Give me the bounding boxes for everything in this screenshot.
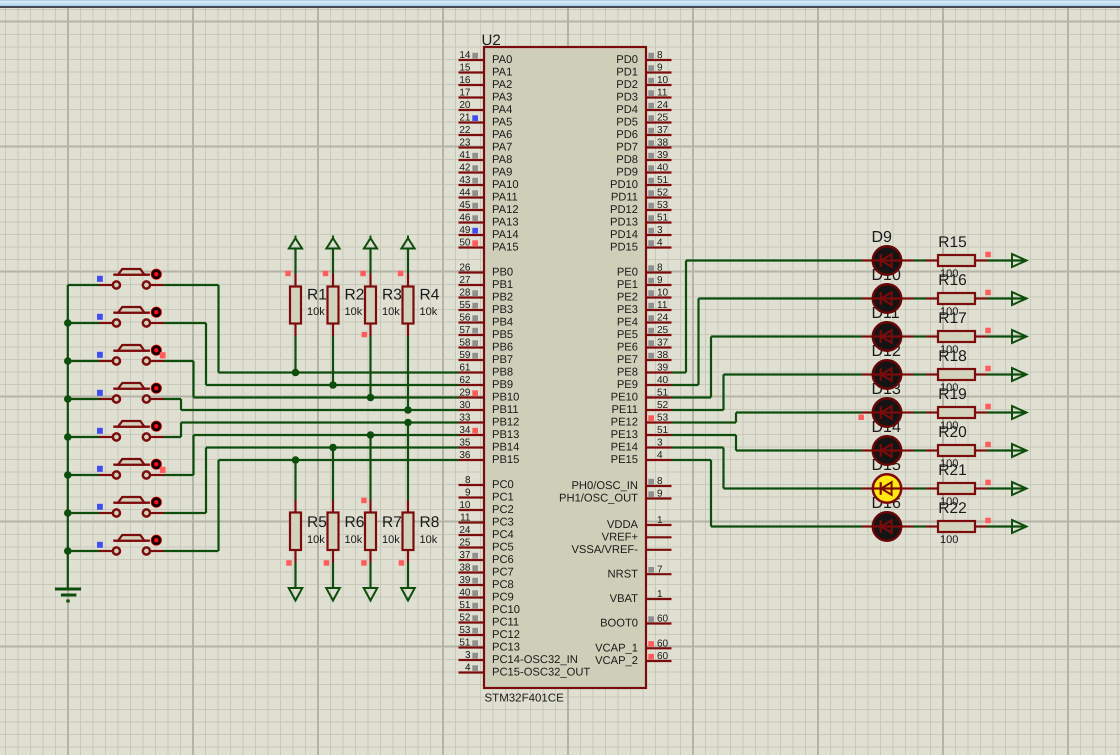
svg-text:PC13: PC13 — [492, 642, 520, 654]
svg-text:PD14: PD14 — [610, 229, 638, 241]
svg-text:BOOT0: BOOT0 — [600, 618, 638, 630]
svg-text:R3: R3 — [382, 287, 402, 304]
svg-text:8: 8 — [465, 475, 471, 486]
svg-text:33: 33 — [459, 413, 471, 424]
svg-text:40: 40 — [657, 163, 669, 174]
svg-text:PD3: PD3 — [616, 92, 638, 104]
svg-text:41: 41 — [459, 150, 471, 161]
svg-text:R17: R17 — [938, 310, 966, 327]
svg-text:58: 58 — [459, 338, 471, 349]
svg-text:24: 24 — [459, 525, 471, 536]
svg-text:9: 9 — [657, 275, 663, 286]
svg-text:10k: 10k — [382, 306, 400, 318]
svg-text:100: 100 — [940, 534, 958, 546]
svg-text:39: 39 — [459, 575, 471, 586]
svg-text:11: 11 — [460, 513, 471, 524]
svg-text:37: 37 — [657, 338, 669, 349]
svg-text:8: 8 — [657, 263, 663, 274]
svg-text:51: 51 — [657, 213, 669, 224]
svg-text:1: 1 — [657, 589, 663, 600]
svg-text:PE5: PE5 — [617, 329, 638, 341]
svg-text:15: 15 — [459, 63, 471, 74]
svg-text:60: 60 — [657, 639, 669, 650]
svg-text:PC8: PC8 — [492, 579, 514, 591]
svg-text:PC12: PC12 — [492, 629, 520, 641]
svg-text:PD15: PD15 — [610, 242, 638, 254]
svg-text:PE10: PE10 — [611, 392, 638, 404]
svg-text:PB10: PB10 — [492, 392, 519, 404]
svg-text:PA2: PA2 — [492, 79, 512, 91]
svg-text:VDDA: VDDA — [607, 519, 639, 531]
svg-text:PA1: PA1 — [492, 67, 512, 79]
svg-text:35: 35 — [459, 438, 471, 449]
svg-text:PB8: PB8 — [492, 367, 513, 379]
svg-text:R22: R22 — [938, 500, 966, 517]
svg-text:9: 9 — [657, 63, 663, 74]
svg-text:VREF+: VREF+ — [602, 532, 638, 544]
svg-text:25: 25 — [657, 325, 669, 336]
svg-text:62: 62 — [459, 375, 471, 386]
svg-text:D9: D9 — [872, 229, 893, 246]
svg-text:PD10: PD10 — [610, 179, 638, 191]
svg-text:40: 40 — [459, 588, 471, 599]
svg-text:10: 10 — [657, 288, 669, 299]
svg-text:42: 42 — [459, 163, 471, 174]
svg-text:51: 51 — [657, 388, 669, 399]
svg-text:PB3: PB3 — [492, 304, 513, 316]
svg-text:PE12: PE12 — [611, 417, 638, 429]
svg-text:PD2: PD2 — [616, 79, 638, 91]
svg-text:53: 53 — [657, 413, 669, 424]
svg-text:PB15: PB15 — [492, 454, 519, 466]
svg-text:PC2: PC2 — [492, 504, 514, 516]
svg-text:PD9: PD9 — [616, 167, 638, 179]
svg-text:60: 60 — [657, 651, 669, 662]
svg-text:3: 3 — [657, 438, 663, 449]
svg-text:8: 8 — [657, 50, 663, 61]
svg-text:R5: R5 — [307, 514, 327, 531]
svg-text:36: 36 — [459, 450, 471, 461]
svg-text:55: 55 — [459, 300, 471, 311]
svg-text:56: 56 — [459, 313, 471, 324]
svg-text:R1: R1 — [307, 287, 327, 304]
svg-text:10k: 10k — [420, 306, 438, 318]
svg-text:R16: R16 — [938, 272, 966, 289]
svg-text:59: 59 — [459, 350, 471, 361]
svg-text:10k: 10k — [307, 534, 325, 546]
svg-text:51: 51 — [459, 600, 471, 611]
svg-text:20: 20 — [459, 100, 471, 111]
svg-text:R18: R18 — [938, 348, 966, 365]
svg-text:4: 4 — [657, 238, 663, 249]
svg-text:17: 17 — [459, 88, 471, 99]
svg-text:R6: R6 — [345, 514, 365, 531]
svg-text:PA3: PA3 — [492, 92, 512, 104]
svg-text:37: 37 — [459, 550, 471, 561]
svg-text:PC0: PC0 — [492, 479, 514, 491]
svg-text:9: 9 — [465, 488, 471, 499]
svg-text:PB6: PB6 — [492, 342, 513, 354]
svg-text:PC7: PC7 — [492, 567, 514, 579]
svg-text:PA9: PA9 — [492, 167, 512, 179]
svg-text:PC4: PC4 — [492, 529, 514, 541]
svg-text:10k: 10k — [420, 534, 438, 546]
svg-text:39: 39 — [657, 363, 669, 374]
svg-text:45: 45 — [459, 200, 471, 211]
svg-text:PD0: PD0 — [616, 54, 638, 66]
svg-text:PC14-OSC32_IN: PC14-OSC32_IN — [492, 654, 578, 666]
svg-text:4: 4 — [465, 663, 471, 674]
svg-text:1: 1 — [657, 515, 663, 526]
svg-text:PB1: PB1 — [492, 279, 513, 291]
svg-text:PC10: PC10 — [492, 604, 520, 616]
svg-text:57: 57 — [459, 325, 471, 336]
svg-text:4: 4 — [657, 450, 663, 461]
svg-text:51: 51 — [657, 425, 669, 436]
svg-text:11: 11 — [657, 300, 668, 311]
svg-text:PE15: PE15 — [611, 454, 638, 466]
svg-text:28: 28 — [459, 288, 471, 299]
svg-text:PD11: PD11 — [611, 192, 638, 204]
svg-text:10: 10 — [657, 75, 669, 86]
svg-text:PB0: PB0 — [492, 267, 513, 279]
svg-text:PD13: PD13 — [610, 217, 638, 229]
svg-text:PD6: PD6 — [616, 129, 638, 141]
svg-text:PB12: PB12 — [492, 417, 519, 429]
svg-text:PE8: PE8 — [617, 367, 638, 379]
svg-text:27: 27 — [459, 275, 471, 286]
svg-text:60: 60 — [657, 614, 669, 625]
svg-text:R4: R4 — [420, 287, 440, 304]
svg-text:PB5: PB5 — [492, 329, 513, 341]
svg-text:PB9: PB9 — [492, 379, 513, 391]
svg-text:PE2: PE2 — [617, 292, 638, 304]
svg-text:PE9: PE9 — [617, 379, 638, 391]
svg-text:44: 44 — [459, 188, 471, 199]
svg-text:49: 49 — [459, 225, 471, 236]
svg-text:PH0/OSC_IN: PH0/OSC_IN — [571, 480, 638, 492]
svg-text:R7: R7 — [382, 514, 402, 531]
svg-text:3: 3 — [465, 650, 471, 661]
svg-text:61: 61 — [459, 363, 471, 374]
svg-text:PA15: PA15 — [492, 242, 519, 254]
svg-text:21: 21 — [459, 113, 471, 124]
svg-text:23: 23 — [459, 138, 471, 149]
svg-text:10k: 10k — [382, 534, 400, 546]
svg-text:U2: U2 — [482, 32, 501, 49]
svg-text:PA6: PA6 — [492, 129, 512, 141]
svg-text:NRST: NRST — [608, 568, 639, 580]
svg-text:PB7: PB7 — [492, 354, 513, 366]
svg-text:PE11: PE11 — [611, 404, 638, 416]
svg-text:8: 8 — [657, 476, 663, 487]
svg-text:53: 53 — [459, 625, 471, 636]
svg-text:PB4: PB4 — [492, 317, 513, 329]
svg-text:R8: R8 — [420, 514, 440, 531]
svg-text:10k: 10k — [345, 534, 363, 546]
svg-text:50: 50 — [459, 238, 471, 249]
svg-text:PC5: PC5 — [492, 542, 514, 554]
svg-text:VBAT: VBAT — [610, 593, 639, 605]
svg-text:52: 52 — [657, 188, 669, 199]
svg-text:PE4: PE4 — [617, 317, 638, 329]
svg-text:PC1: PC1 — [492, 492, 514, 504]
svg-text:10k: 10k — [307, 306, 325, 318]
svg-text:PD12: PD12 — [610, 204, 638, 216]
svg-text:PE6: PE6 — [617, 342, 638, 354]
svg-text:10k: 10k — [345, 306, 363, 318]
svg-text:51: 51 — [657, 175, 669, 186]
svg-text:PA13: PA13 — [492, 217, 519, 229]
svg-text:STM32F401CE: STM32F401CE — [485, 693, 565, 705]
svg-text:14: 14 — [459, 50, 471, 61]
svg-text:PH1/OSC_OUT: PH1/OSC_OUT — [559, 493, 638, 505]
svg-text:24: 24 — [657, 100, 669, 111]
svg-text:PD4: PD4 — [616, 104, 638, 116]
svg-text:PA14: PA14 — [492, 229, 519, 241]
svg-text:PE0: PE0 — [617, 267, 638, 279]
svg-text:51: 51 — [459, 638, 471, 649]
svg-text:PC3: PC3 — [492, 517, 514, 529]
svg-text:10: 10 — [459, 500, 471, 511]
svg-text:PD1: PD1 — [616, 67, 638, 79]
svg-text:PB13: PB13 — [492, 429, 519, 441]
svg-text:9: 9 — [657, 489, 663, 500]
svg-text:43: 43 — [459, 175, 471, 186]
svg-text:38: 38 — [459, 563, 471, 574]
svg-text:PD7: PD7 — [616, 142, 638, 154]
svg-text:PE1: PE1 — [617, 279, 638, 291]
svg-text:PA11: PA11 — [492, 192, 518, 204]
svg-text:PA8: PA8 — [492, 154, 512, 166]
svg-text:3: 3 — [657, 225, 663, 236]
svg-text:PA5: PA5 — [492, 117, 512, 129]
svg-text:38: 38 — [657, 350, 669, 361]
svg-text:38: 38 — [657, 138, 669, 149]
svg-text:30: 30 — [459, 400, 471, 411]
svg-text:VSSA/VREF-: VSSA/VREF- — [571, 544, 638, 556]
svg-text:25: 25 — [459, 538, 471, 549]
svg-text:R2: R2 — [345, 287, 365, 304]
svg-text:52: 52 — [657, 400, 669, 411]
svg-text:34: 34 — [459, 425, 471, 436]
svg-text:PD8: PD8 — [616, 154, 638, 166]
svg-text:PA12: PA12 — [492, 204, 519, 216]
svg-text:24: 24 — [657, 313, 669, 324]
svg-text:PE13: PE13 — [611, 429, 638, 441]
svg-text:46: 46 — [459, 213, 471, 224]
svg-text:R19: R19 — [938, 386, 966, 403]
svg-text:PE3: PE3 — [617, 304, 638, 316]
svg-text:PA4: PA4 — [492, 104, 512, 116]
svg-text:7: 7 — [657, 564, 663, 575]
svg-text:16: 16 — [459, 75, 471, 86]
svg-text:PC9: PC9 — [492, 592, 514, 604]
svg-text:PA0: PA0 — [492, 54, 512, 66]
svg-text:PC6: PC6 — [492, 554, 514, 566]
svg-text:40: 40 — [657, 375, 669, 386]
svg-text:37: 37 — [657, 125, 669, 136]
svg-text:VCAP_1: VCAP_1 — [595, 643, 638, 655]
svg-text:11: 11 — [657, 88, 668, 99]
svg-text:PE14: PE14 — [611, 442, 638, 454]
svg-text:52: 52 — [459, 613, 471, 624]
svg-text:R15: R15 — [938, 234, 966, 251]
svg-text:53: 53 — [657, 200, 669, 211]
svg-text:22: 22 — [459, 125, 471, 136]
svg-text:PD5: PD5 — [616, 117, 638, 129]
svg-text:PB14: PB14 — [492, 442, 519, 454]
svg-text:PA7: PA7 — [492, 142, 512, 154]
svg-text:39: 39 — [657, 150, 669, 161]
svg-text:26: 26 — [459, 263, 471, 274]
svg-text:25: 25 — [657, 113, 669, 124]
svg-text:VCAP_2: VCAP_2 — [595, 655, 638, 667]
svg-text:R21: R21 — [938, 462, 966, 479]
svg-text:PB11: PB11 — [492, 404, 519, 416]
svg-text:PA10: PA10 — [492, 179, 519, 191]
svg-text:PC11: PC11 — [492, 617, 519, 629]
svg-text:PE7: PE7 — [617, 354, 638, 366]
svg-text:R20: R20 — [938, 424, 967, 441]
svg-text:29: 29 — [459, 388, 471, 399]
svg-text:PB2: PB2 — [492, 292, 513, 304]
svg-text:PC15-OSC32_OUT: PC15-OSC32_OUT — [492, 667, 590, 679]
